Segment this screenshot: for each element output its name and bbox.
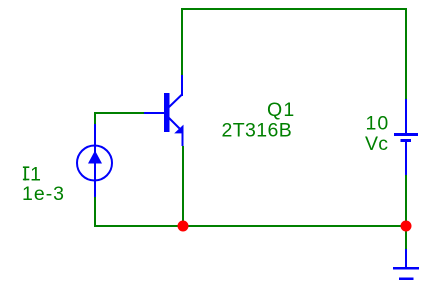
current source I1 circle [77, 146, 112, 181]
svg-text:Q1: Q1 [267, 99, 295, 121]
battery Vc long plate [394, 133, 418, 136]
wire left vertical lower (I1 bottom lead to bottom rail) [94, 197, 96, 227]
ground bar short [399, 277, 414, 280]
wire top horizontal (collector net to Vc) [181, 8, 407, 10]
junction dot Vc/bottom rail [401, 221, 412, 232]
svg-text:1e-3: 1e-3 [22, 183, 65, 205]
ground lead vertical [405, 249, 407, 268]
ground bar long [393, 267, 419, 270]
transistor Q1 collector diagonal [169, 95, 183, 108]
transistor Q1 emitter diagonal [169, 118, 180, 129]
battery Vc short plate [401, 139, 412, 142]
transistor Q1 base bar [164, 93, 170, 132]
current source I1 lead line vertical [94, 124, 96, 197]
current source I1 arrow [88, 151, 102, 164]
wire emitter vertical green [182, 146, 184, 226]
svg-text:Vc: Vc [365, 133, 388, 155]
wire base horizontal (I1 to Q1 base) [94, 112, 144, 114]
battery Vc bottom lead [405, 142, 407, 175]
transistor Q1 emitter lead vertical [182, 131, 184, 146]
wire right vertical lower (bottom rail junction to ground) [405, 226, 407, 249]
svg-text:10: 10 [366, 113, 390, 135]
wire right vertical mid (Vc- to bottom rail) [405, 175, 407, 226]
label I1 serif top of I [23, 166, 29, 168]
battery Vc top lead [405, 99, 407, 134]
wire right vertical upper (top wire to Vc+) [405, 8, 407, 99]
junction dot emitter/bottom rail [178, 221, 189, 232]
wire top-left vertical drop to collector [181, 8, 183, 75]
svg-text:2T316B: 2T316B [222, 120, 293, 142]
label I1 serif bottom of I [23, 179, 29, 181]
wire left vertical upper (corner to I1 top lead) [94, 112, 96, 124]
transistor Q1 collector lead vertical [181, 75, 183, 96]
transistor Q1 base lead [144, 112, 164, 114]
wire bottom rail [94, 225, 407, 227]
transistor Q1 emitter arrowhead [174, 125, 183, 134]
